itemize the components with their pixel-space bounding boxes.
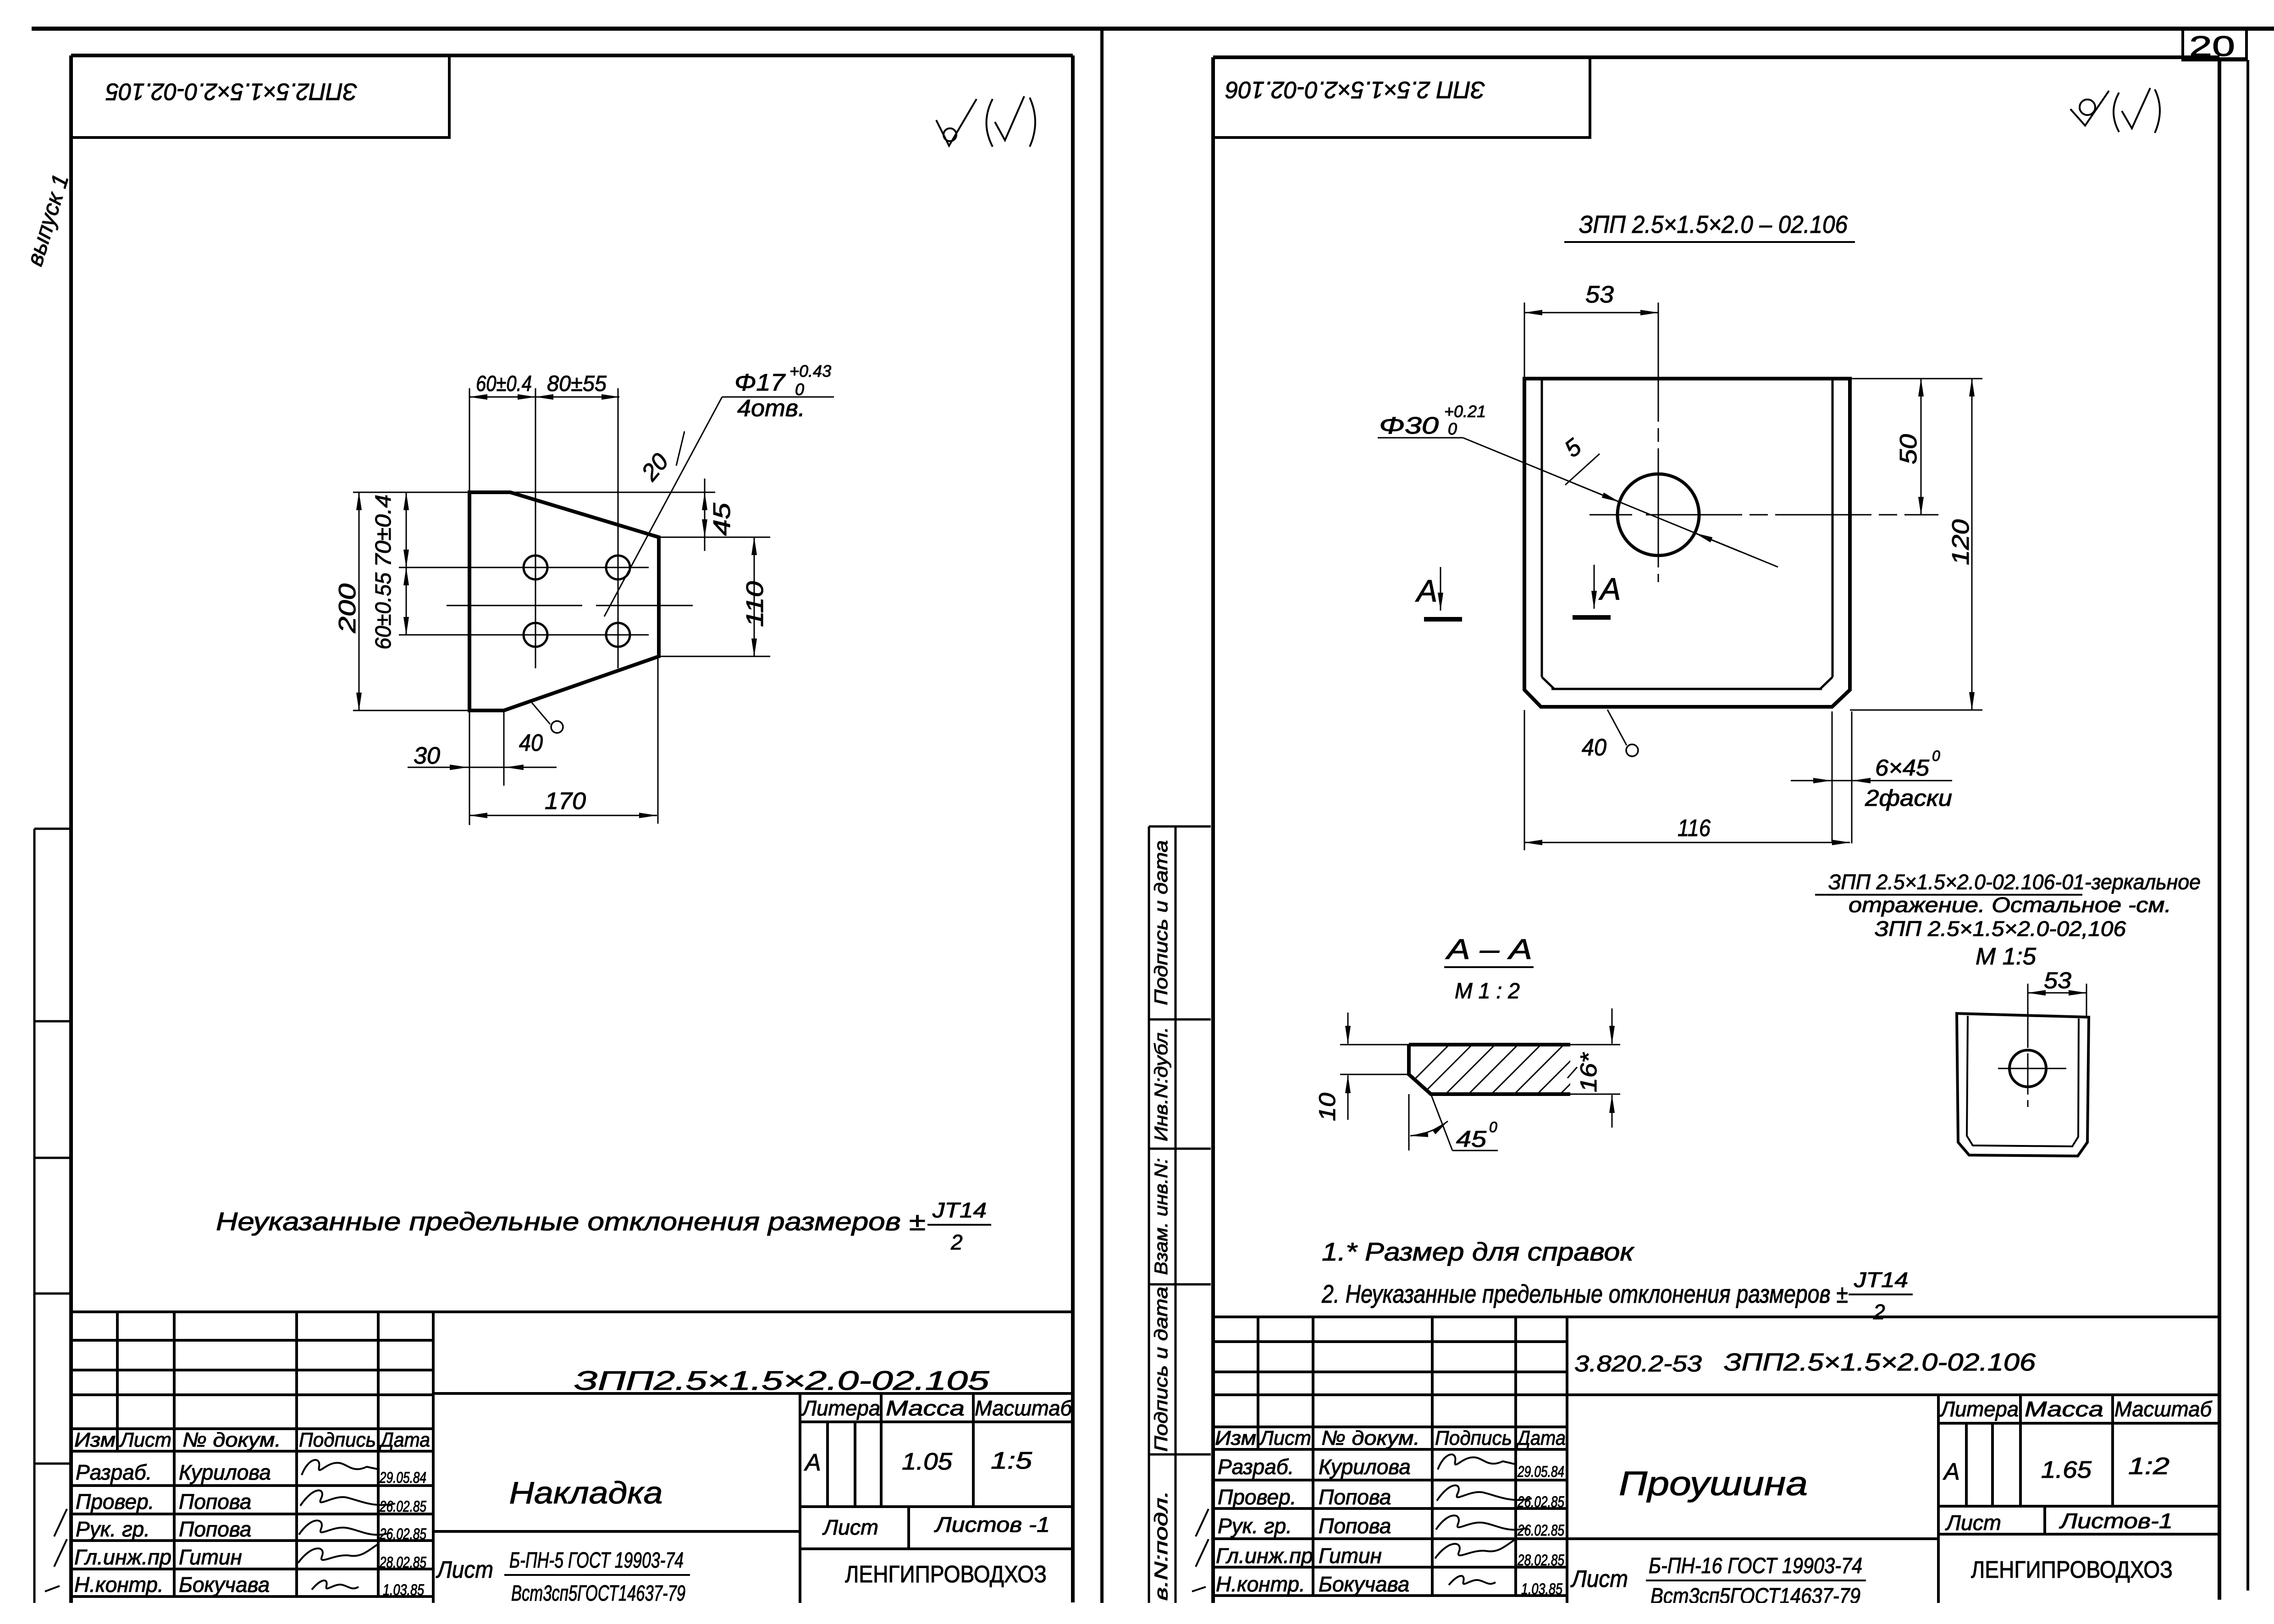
- svg-text:Инв.N:дубл.: Инв.N:дубл.: [1151, 1027, 1171, 1141]
- right sheet frame: [1213, 57, 2219, 1604]
- svg-text:Лист: Лист: [822, 1515, 878, 1539]
- svg-text:Бокучава: Бокучава: [1319, 1572, 1409, 1596]
- inner left edge: [1541, 379, 1543, 677]
- small view hole: [2009, 1050, 2046, 1087]
- svg-text:Гитин: Гитин: [179, 1545, 242, 1569]
- svg-text:Б-ПН-5 ГОСТ 19903-74: Б-ПН-5 ГОСТ 19903-74: [509, 1548, 684, 1573]
- dim 110: [754, 537, 755, 656]
- right header row: [1215, 1427, 1566, 1449]
- svg-text:Изм: Изм: [1215, 1427, 1256, 1449]
- svg-text:120: 120: [1948, 519, 1974, 565]
- svg-text:0: 0: [1489, 1119, 1497, 1135]
- svg-text:60±0.55: 60±0.55: [371, 573, 396, 650]
- right dates: [1517, 1463, 1564, 1598]
- svg-text:в.N:подл.: в.N:подл.: [1151, 1491, 1171, 1601]
- svg-text:6×45: 6×45: [1875, 755, 1929, 781]
- chamfer dim 6x45: [1832, 711, 1833, 843]
- svg-text:29.05.84: 29.05.84: [1517, 1463, 1564, 1481]
- svg-text:Лист: Лист: [1945, 1511, 2001, 1535]
- svg-text:Подпись: Подпись: [1435, 1427, 1512, 1449]
- small view outline: [1957, 1013, 2089, 1156]
- page number box: [2183, 29, 2246, 60]
- small view inner lines: [1967, 1016, 2079, 1146]
- left surface finish mark: [936, 96, 1035, 147]
- svg-text:1.03.85: 1.03.85: [1521, 1580, 1562, 1598]
- extension lines: [353, 388, 770, 825]
- hole top-right: [606, 556, 630, 579]
- svg-text:А: А: [1598, 572, 1621, 606]
- svg-text:116: 116: [1678, 815, 1711, 842]
- svg-text:Масштаб: Масштаб: [975, 1396, 1073, 1420]
- svg-text:4отв.: 4отв.: [737, 395, 805, 422]
- svg-text:28.02.85: 28.02.85: [1517, 1552, 1564, 1569]
- right signatures: [1435, 1454, 1532, 1585]
- svg-text:Рук. гр.: Рук. гр.: [1218, 1514, 1292, 1538]
- dim 60±0.55: [406, 567, 407, 635]
- svg-text:Изм: Изм: [74, 1429, 116, 1451]
- svg-text:ЛЕНГИПРОВОДХОЗ: ЛЕНГИПРОВОДХОЗ: [845, 1561, 1047, 1588]
- svg-text:1.05: 1.05: [902, 1448, 953, 1475]
- svg-text:10: 10: [1314, 1093, 1340, 1121]
- rotated margin labels: [1151, 840, 1171, 1601]
- svg-text:Взам. инв.N:: Взам. инв.N:: [1151, 1158, 1171, 1275]
- right surface finish mark: [2070, 88, 2160, 133]
- svg-text:Литера: Литера: [1939, 1397, 2019, 1421]
- section bar outline: [1409, 1045, 1570, 1094]
- top rule line: [32, 27, 2274, 31]
- svg-text:26.02.85: 26.02.85: [1517, 1522, 1564, 1539]
- svg-text:26.02.85: 26.02.85: [379, 1498, 426, 1515]
- svg-text:Вст3сп5ГОСТ14637-79: Вст3сп5ГОСТ14637-79: [511, 1581, 685, 1606]
- svg-text:28.02.85: 28.02.85: [379, 1554, 426, 1571]
- svg-text:+0.21: +0.21: [1444, 402, 1486, 421]
- dim 200: [359, 492, 360, 710]
- svg-text:Накладка: Накладка: [509, 1475, 663, 1510]
- left stamp box: [71, 57, 449, 138]
- dim 120: [1850, 710, 1982, 711]
- plate outline: [1524, 379, 1850, 707]
- svg-text:40: 40: [519, 730, 543, 756]
- svg-text:Проушина: Проушина: [1619, 1464, 1808, 1503]
- svg-text:Гл.инж.пр: Гл.инж.пр: [1216, 1544, 1313, 1568]
- svg-text:Дата: Дата: [378, 1429, 430, 1451]
- svg-text:ЗПП2.5×1.5×2.0-02.105: ЗПП2.5×1.5×2.0-02.105: [105, 78, 357, 105]
- svg-text:ЗПП 2.5×1.5×2.0-02.106: ЗПП 2.5×1.5×2.0-02.106: [1225, 76, 1485, 103]
- svg-text:Лист: Лист: [1258, 1427, 1311, 1449]
- svg-text:3.820.2-53: 3.820.2-53: [1574, 1351, 1702, 1376]
- dia30 leader: [1378, 437, 1463, 439]
- svg-text:2фаски: 2фаски: [1865, 785, 1952, 811]
- svg-text:Подпись: Подпись: [299, 1429, 376, 1451]
- svg-text:Разраб.: Разраб.: [76, 1460, 152, 1484]
- svg-text:отражение. Остальное -см.: отражение. Остальное -см.: [1849, 893, 2171, 917]
- right outer edge line: [2246, 60, 2249, 1591]
- signature rows labels: [74, 1460, 271, 1596]
- svg-text:Подпись и дата: Подпись и дата: [1151, 1287, 1171, 1452]
- svg-text:70±0.4: 70±0.4: [371, 495, 396, 567]
- svg-text:29.05.84: 29.05.84: [379, 1469, 426, 1486]
- svg-text:40: 40: [1582, 734, 1606, 761]
- svg-text:Лист: Лист: [119, 1429, 171, 1451]
- svg-text:110: 110: [742, 581, 768, 627]
- svg-text:2. Неуказанные предельные: 2. Неуказанные предельные отклонения раз…: [1321, 1279, 1848, 1308]
- svg-text:Подпись и дата: Подпись и дата: [1151, 840, 1171, 1005]
- dim 70±0.4: [406, 492, 407, 567]
- svg-text:26.02.85: 26.02.85: [1517, 1493, 1564, 1511]
- svg-text:53: 53: [2044, 968, 2071, 993]
- right block grid: [1213, 1317, 2219, 1603]
- svg-text:Попова: Попова: [1319, 1485, 1391, 1509]
- svg-text:Попова: Попова: [179, 1490, 251, 1514]
- svg-text:ЛЕНГИПРОВОДХОЗ: ЛЕНГИПРОВОДХОЗ: [1971, 1557, 2173, 1583]
- dates: [379, 1469, 426, 1599]
- angle 45: [1410, 1121, 1448, 1136]
- svg-text:Масштаб: Масштаб: [2114, 1397, 2213, 1421]
- svg-text:53: 53: [1585, 281, 1614, 308]
- svg-text:30: 30: [414, 743, 440, 769]
- svg-text:А – А: А – А: [1445, 934, 1532, 965]
- dim 16*: [1612, 1008, 1613, 1044]
- signatures squiggles: [298, 1460, 395, 1590]
- svg-text:ЗПП 2.5×1.5×2.0-02,106: ЗПП 2.5×1.5×2.0-02,106: [1875, 917, 2126, 941]
- small view crosshair: [1998, 1068, 2066, 1069]
- svg-text:16*: 16*: [1576, 1052, 1601, 1092]
- svg-text:+0.43: +0.43: [789, 362, 831, 380]
- dim 10: [1347, 1013, 1349, 1044]
- svg-text:Бокучава: Бокучава: [179, 1573, 270, 1596]
- right signature rows: [1216, 1455, 1411, 1596]
- Litera Massa Masshtab header: [801, 1396, 1073, 1420]
- svg-text:60±0.4: 60±0.4: [476, 372, 532, 396]
- svg-text:0: 0: [1932, 748, 1940, 764]
- plate outline: [469, 492, 659, 710]
- header Izm List Ndokum Podpis Data: [74, 1429, 430, 1451]
- svg-text:Φ17: Φ17: [734, 369, 786, 396]
- svg-text:Дата: Дата: [1515, 1427, 1566, 1449]
- svg-text:Рук. гр.: Рук. гр.: [76, 1517, 150, 1541]
- svg-text:45: 45: [1456, 1126, 1486, 1152]
- svg-text:200: 200: [334, 584, 361, 633]
- svg-text:JT14: JT14: [1854, 1268, 1908, 1292]
- dim 170: [469, 815, 657, 816]
- right margin column cells: [1149, 826, 1211, 1603]
- svg-text:Курилова: Курилова: [179, 1460, 271, 1484]
- svg-text:JT14: JT14: [932, 1198, 987, 1222]
- svg-text:1:5: 1:5: [991, 1448, 1032, 1474]
- left block grid: [71, 1312, 1073, 1603]
- big hole: [1617, 474, 1699, 556]
- right margin slashes: [1192, 1509, 1209, 1591]
- svg-text:2: 2: [950, 1230, 963, 1254]
- left sheet frame: [71, 55, 1073, 1604]
- leader dia 17: [722, 396, 834, 398]
- svg-text:Б-ПН-16 ГОСТ 19903-74: Б-ПН-16 ГОСТ 19903-74: [1649, 1554, 1862, 1578]
- svg-text:Лист: Лист: [1570, 1566, 1628, 1592]
- svg-text:Лист: Лист: [436, 1557, 493, 1583]
- svg-text:Н.контр.: Н.контр.: [1216, 1572, 1305, 1596]
- dim 116: [1524, 710, 1525, 850]
- svg-text:Попова: Попова: [1319, 1514, 1391, 1538]
- inner right edge: [1832, 379, 1834, 677]
- hole top-left: [524, 556, 547, 579]
- svg-text:Листов -1: Листов -1: [934, 1513, 1050, 1536]
- svg-text:ЗПП 2.5×1.5×2.0 – 02.106: ЗПП 2.5×1.5×2.0 – 02.106: [1579, 211, 1848, 238]
- svg-text:А: А: [1943, 1459, 1960, 1485]
- svg-text:0: 0: [1448, 419, 1457, 438]
- svg-text:Литера: Литера: [801, 1396, 880, 1420]
- svg-text:ЗПП2.5×1.5×2.0-02.105: ЗПП2.5×1.5×2.0-02.105: [574, 1366, 990, 1396]
- svg-text:2: 2: [1873, 1300, 1885, 1324]
- svg-text:ЗПП2.5×1.5×2.0-02.106: ЗПП2.5×1.5×2.0-02.106: [1724, 1349, 2036, 1376]
- svg-text:50: 50: [1895, 434, 1922, 464]
- dim 80±55: [535, 396, 619, 398]
- dim 30: [408, 767, 557, 768]
- middle divider line: [1100, 28, 1104, 1604]
- svg-text:Н.контр.: Н.контр.: [74, 1573, 164, 1596]
- svg-text:Масса: Масса: [2025, 1397, 2103, 1421]
- svg-text:1:2: 1:2: [2128, 1453, 2169, 1480]
- hole bottom-left: [524, 623, 547, 647]
- svg-text:170: 170: [545, 788, 586, 815]
- bottom cut mask: [0, 1603, 2274, 1624]
- hatching: [1394, 1036, 1618, 1100]
- inner chamfers: [1542, 677, 1554, 689]
- svg-text:1.65: 1.65: [2041, 1457, 2092, 1483]
- svg-text:Гитин: Гитин: [1319, 1544, 1382, 1568]
- svg-text:Провер.: Провер.: [76, 1490, 154, 1514]
- svg-text:1.* Размер для справок: 1.* Размер для справок: [1322, 1237, 1635, 1266]
- svg-text:80±55: 80±55: [547, 372, 607, 396]
- dim 60±0.4: [469, 396, 535, 398]
- svg-text:1.03.85: 1.03.85: [383, 1581, 424, 1599]
- svg-text:№ докум.: № докум.: [1321, 1427, 1420, 1449]
- svg-text:Φ30: Φ30: [1379, 413, 1439, 439]
- svg-text:А: А: [804, 1449, 821, 1476]
- svg-text:Курилова: Курилова: [1319, 1455, 1411, 1479]
- svg-text:45: 45: [709, 502, 735, 536]
- svg-text:М 1:5: М 1:5: [1976, 943, 2037, 970]
- chamfer leader 40: [532, 703, 550, 724]
- svg-text:Разраб.: Разраб.: [1218, 1455, 1294, 1479]
- dim 50: [1850, 378, 1982, 380]
- right Litera header: [1939, 1397, 2213, 1421]
- dim 45: [704, 492, 706, 537]
- chamfer leader 40 right: [1607, 710, 1627, 745]
- surface tick on bar: [1568, 1067, 1577, 1078]
- svg-text:Неуказанные предельные от: Неуказанные предельные отклонения размер…: [216, 1207, 926, 1236]
- svg-text:Масса: Масса: [886, 1396, 965, 1420]
- svg-text:Гл.инж.пр: Гл.инж.пр: [74, 1545, 171, 1569]
- svg-text:А: А: [1415, 573, 1437, 608]
- svg-text:Провер.: Провер.: [1218, 1485, 1296, 1509]
- dim 53 top: [1524, 303, 1525, 379]
- hole centerlines: [1590, 514, 1632, 516]
- right stamp box: [1213, 58, 1590, 138]
- centerlines: [447, 388, 693, 668]
- left margin column cells: [34, 829, 71, 1603]
- left margin slashes: [45, 1509, 67, 1591]
- inner bottom edge: [1551, 688, 1822, 690]
- section extension lines: [1340, 1045, 1620, 1151]
- svg-text:ЗПП 2.5×1.5×2.0-02.106-01-зерк: ЗПП 2.5×1.5×2.0-02.106-01-зеркальное: [1828, 870, 2201, 894]
- svg-text:№ докум.: № докум.: [182, 1429, 281, 1451]
- svg-text:Листов-1: Листов-1: [2059, 1509, 2173, 1533]
- svg-text:М 1 : 2: М 1 : 2: [1455, 979, 1520, 1003]
- svg-text:Попова: Попова: [179, 1517, 251, 1541]
- hole bottom-right: [606, 623, 630, 647]
